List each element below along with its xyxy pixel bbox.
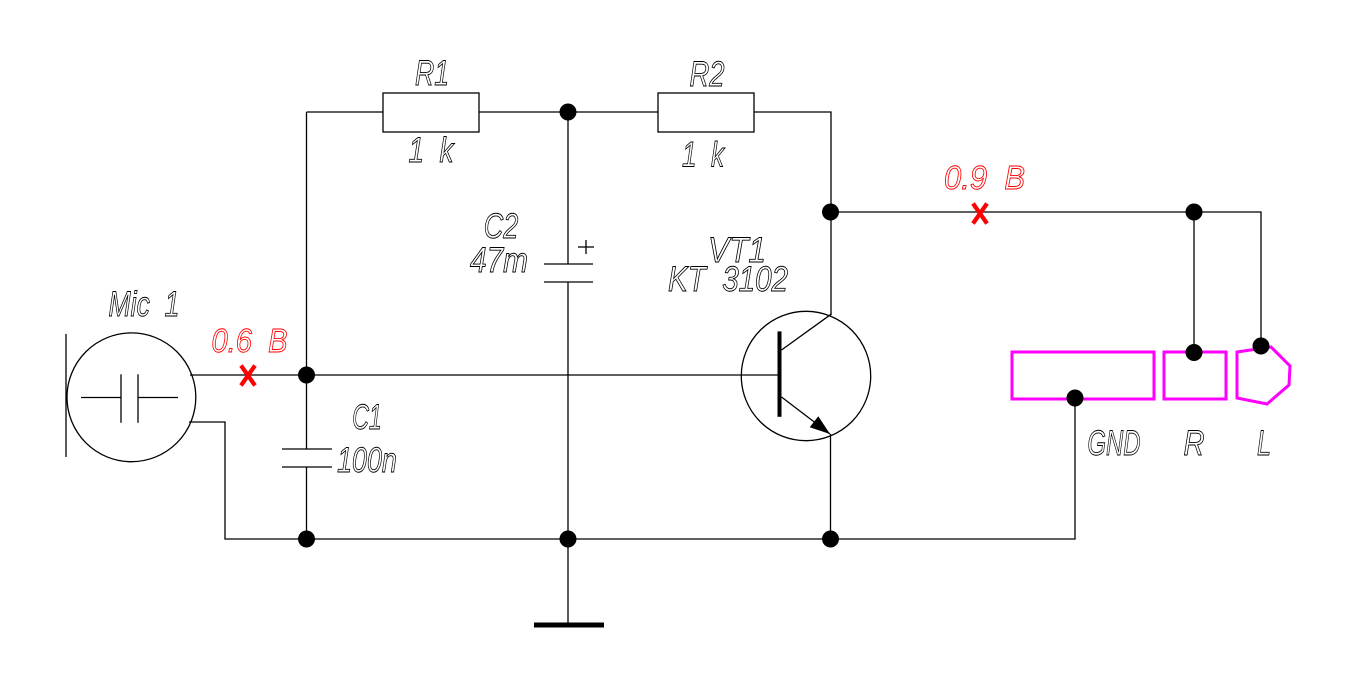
wire output horizontal	[831, 212, 1262, 346]
connector R (magenta)	[1164, 352, 1226, 399]
measurement X 0.6B	[241, 366, 255, 386]
wire left rail vertical	[306, 112, 308, 449]
svg-text:1 k: 1 k	[682, 136, 725, 175]
wire node to R2	[568, 111, 658, 113]
measurement X 0.9B	[973, 204, 987, 224]
node left rail bottom	[298, 531, 315, 548]
capacitor C1	[282, 448, 332, 450]
capacitor C2 plates	[544, 263, 593, 265]
wire top-left horizontal to R1	[307, 111, 384, 113]
transistor collector diagonal	[782, 314, 832, 350]
node collector / output	[822, 204, 839, 221]
svg-text:C1: C1	[352, 398, 382, 437]
svg-text:R2: R2	[690, 55, 725, 94]
wire emitter to bottom rail	[830, 434, 832, 539]
svg-text:0.9 B: 0.9 B	[944, 159, 1025, 196]
svg-text:Mic 1: Mic 1	[109, 285, 180, 324]
transistor emitter diagonal	[782, 397, 831, 434]
svg-text:47m: 47m	[470, 241, 528, 280]
node mic wire / left rail	[298, 367, 315, 384]
svg-text:1 k: 1 k	[409, 131, 455, 170]
node on L connector	[1253, 338, 1270, 355]
node output branch R	[1186, 204, 1203, 221]
node on R connector	[1186, 344, 1203, 361]
wire C2 bottom plate to ground rail	[567, 282, 569, 539]
node GND connector	[1067, 390, 1084, 407]
wire collector rail down into transistor	[830, 212, 832, 314]
svg-text:L: L	[1257, 424, 1271, 463]
svg-text:KT 3102: KT 3102	[668, 260, 788, 299]
wire R1 to node	[479, 111, 568, 113]
resistor R1	[383, 93, 479, 132]
mic internal capacitor	[81, 397, 121, 399]
C2 plus sign	[578, 246, 594, 248]
svg-text:0.6 B: 0.6 B	[212, 322, 288, 359]
transistor VT1 circle	[741, 311, 870, 440]
svg-text:100n: 100n	[337, 441, 397, 480]
resistor R2	[658, 93, 754, 132]
wire left rail below C1	[306, 467, 308, 539]
wire R2 right and down to collector	[754, 112, 831, 212]
wire mic bottom to ground rail	[189, 398, 1075, 539]
node emitter bottom	[822, 531, 839, 548]
node junction R1/R2/C2	[560, 104, 577, 121]
wire mic to base	[190, 374, 778, 376]
wire branch down to R connector	[1193, 212, 1195, 352]
svg-text:GND: GND	[1088, 424, 1141, 463]
wire node to C2 top plate	[567, 112, 569, 264]
ground symbol	[567, 539, 569, 623]
node C2 bottom	[560, 531, 577, 548]
transistor emitter arrowhead	[810, 416, 830, 434]
connector L (magenta pentagon)	[1237, 347, 1290, 404]
svg-text:R1: R1	[415, 54, 449, 93]
transistor base bar	[778, 331, 782, 416]
connector GND (magenta)	[1012, 352, 1154, 399]
svg-text:R: R	[1184, 424, 1205, 463]
mic left tangent line	[65, 334, 67, 457]
microphone Mic1 circle	[67, 333, 196, 462]
